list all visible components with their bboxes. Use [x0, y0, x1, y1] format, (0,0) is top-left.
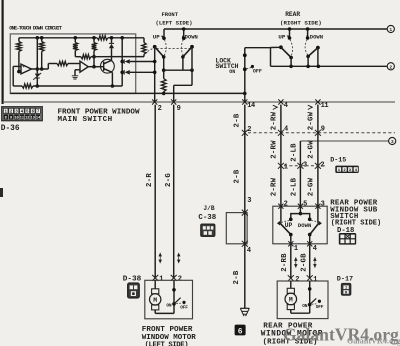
connector pin 1 rear motor: [307, 275, 318, 284]
svg-text:2-GW: 2-GW: [307, 140, 315, 159]
label 2-GW upper: [307, 111, 315, 130]
svg-text:D-38: D-38: [123, 275, 142, 283]
svg-text:2-RW: 2-RW: [270, 177, 278, 196]
resistor R8 (horizontal mid): [75, 55, 94, 59]
connector pin 1 front motor: [152, 275, 163, 284]
svg-text:UP: UP: [278, 33, 285, 40]
label DOWN rear: [310, 33, 323, 40]
wire sub out right: [309, 235, 311, 244]
wire sub contact bridge: [291, 214, 310, 220]
wire 2-B lower: [244, 244, 246, 308]
dashed link front pivots: [157, 48, 191, 50]
wire harness line: [3, 101, 395, 103]
ground ref 6 box: [235, 325, 246, 337]
connector D-18 icon: [339, 233, 356, 245]
wire R5 to U2: [68, 63, 80, 65]
terminal line to circle 3: [300, 140, 388, 142]
svg-text:2-R: 2-R: [146, 173, 154, 187]
wire 2-R: [154, 105, 156, 278]
wire lock vertical: [244, 48, 246, 102]
svg-text:9: 9: [177, 105, 181, 113]
svg-text:FRONT: FRONT: [162, 11, 179, 18]
svg-text:UP: UP: [285, 222, 293, 229]
one-touch down circuit box: [10, 34, 135, 94]
resistor R1: [17, 38, 22, 72]
svg-text:MAIN SWITCH: MAIN SWITCH: [58, 116, 113, 124]
sub pivot arrows: [277, 221, 322, 226]
dashed arc front UP: [164, 40, 166, 56]
label 2-B upper: [233, 113, 241, 127]
label DOWN front: [185, 33, 198, 40]
motor switch front arm: [174, 298, 181, 304]
svg-text:4: 4: [284, 125, 288, 133]
dashed arc front DOWN: [181, 40, 183, 56]
ground ZZ symbol: [72, 70, 78, 79]
dashed harness line 1: [248, 132, 395, 134]
motor switch rear OFF: [316, 300, 324, 311]
connector D-36 pin grid: [2, 107, 42, 121]
pivot dots front: [153, 45, 194, 49]
wire sub out left: [290, 235, 292, 244]
wire switch feed rear: [308, 281, 312, 305]
connector pin 2 rear motor: [288, 275, 300, 284]
switch arm rear-left: [281, 47, 293, 66]
motor switch front ON: [166, 302, 175, 308]
switch arm front-right: [181, 47, 192, 59]
wire 2-GW: [317, 105, 319, 207]
svg-text:UP: UP: [153, 33, 160, 40]
label 2-R: [146, 173, 154, 187]
connector pin 2 front motor: [171, 275, 182, 284]
label D-18: [337, 227, 354, 235]
svg-text:D-15: D-15: [330, 157, 346, 165]
wire ground bus: [10, 92, 246, 96]
wire DOWN contact drop: [183, 29, 185, 38]
svg-text:DOWN: DOWN: [298, 222, 311, 229]
svg-text:3: 3: [321, 201, 325, 209]
motor switch rear dashes: [312, 303, 317, 306]
wire diode-pair vertical: [120, 38, 124, 86]
svg-text:GalantVR4.org: GalantVR4.org: [347, 337, 400, 346]
terminal circle 3: [389, 137, 396, 145]
label D-38: [123, 275, 142, 283]
connector X 2-GW dashed2: [315, 162, 325, 170]
svg-text:2: 2: [158, 105, 162, 113]
wire 2-B upper: [244, 105, 246, 213]
svg-text:J/B: J/B: [203, 205, 214, 212]
coil L1: [142, 38, 146, 57]
svg-text:ONE-TOUCH DOWN CIRCUIT: ONE-TOUCH DOWN CIRCUIT: [9, 25, 62, 31]
svg-text:OFF: OFF: [180, 305, 188, 311]
wire front left arm to resistor: [162, 57, 166, 72]
op-amp U1: [16, 64, 31, 74]
label 2-GW mid: [307, 140, 315, 159]
dashed mechanical link coil-switch: [148, 48, 154, 51]
wire rear UP drop: [289, 29, 291, 38]
wire motor lead rear: [290, 281, 292, 288]
label UP sub: [285, 222, 293, 229]
arrow rear down-contact: [306, 36, 308, 39]
motor switch rear ON: [302, 303, 311, 309]
wire rail 1: [164, 27, 387, 31]
label 2-G: [165, 173, 173, 187]
pivot dots rear: [279, 45, 320, 49]
wire UP contact drop: [163, 29, 165, 38]
junction block J/B C-38 box: [226, 213, 247, 244]
wire 2-RW: [280, 105, 282, 207]
svg-text:1: 1: [294, 245, 298, 253]
label 2-RB: [281, 253, 289, 272]
connector X J/B top: [242, 210, 248, 216]
label 2-GW lower: [307, 177, 315, 196]
label D-15: [330, 157, 346, 165]
motor M1: [150, 289, 161, 310]
branch arrow 11: [308, 105, 313, 109]
terminal circle 1: [387, 25, 394, 33]
rear motor box: [277, 281, 328, 319]
svg-text:DOWN: DOWN: [310, 33, 323, 40]
svg-text:3: 3: [247, 197, 251, 205]
svg-text:2-GW: 2-GW: [307, 177, 315, 196]
svg-text:2-LB: 2-LB: [290, 143, 298, 162]
zener diode D2 with cross: [33, 73, 41, 88]
label DOWN sub: [298, 222, 311, 229]
svg-text:2-G: 2-G: [165, 173, 173, 187]
label D-17: [337, 276, 353, 284]
resistor R4: [92, 38, 97, 69]
wire top rail: [19, 37, 144, 39]
motor M2: [285, 288, 297, 309]
wire front common bus: [164, 68, 194, 72]
svg-text:D-17: D-17: [337, 276, 353, 284]
dashed harness line 2: [284, 165, 326, 167]
wire U1 output: [31, 64, 57, 70]
wire R1 to op-amp input: [17, 70, 21, 74]
wire front right pivot drop: [191, 47, 193, 86]
arrow down-contact front: [182, 36, 184, 39]
rear sub switch box: [273, 206, 327, 244]
svg-text:11: 11: [20, 117, 24, 121]
svg-text:2-LB: 2-LB: [290, 177, 298, 196]
svg-text:12: 12: [25, 117, 29, 121]
connector pin 4 rear: [278, 99, 288, 109]
wire bottom rail: [13, 85, 122, 87]
label UP rear: [278, 33, 285, 40]
svg-text:9: 9: [10, 117, 12, 121]
switch arm front-left: [155, 47, 166, 59]
wire motor bottom loop front: [155, 304, 174, 314]
connector pin 1 sub out: [288, 241, 298, 253]
wire sub pivot-right feed: [317, 206, 319, 223]
svg-text:M: M: [153, 297, 157, 304]
resistor R9: [161, 70, 166, 95]
motor switch rear arm: [310, 298, 317, 304]
connector pin 3 sub: [315, 201, 325, 209]
wire U1 feedback left: [13, 66, 16, 86]
wire front pivot-left vertical: [153, 47, 157, 102]
wire lock top route: [245, 48, 271, 67]
motor switch front OFF: [180, 301, 188, 311]
wire coil feed: [94, 56, 144, 58]
label 2-B lower: [233, 270, 241, 284]
svg-text:6: 6: [238, 327, 243, 336]
label D-36: [1, 125, 20, 133]
label 2-LB mid: [290, 143, 298, 162]
label FRONT: [162, 11, 179, 18]
dashed arc rear DOWN: [305, 39, 307, 55]
label REAR POWER WINDOW SUB SWITCH (RIGHT SIDE): [330, 199, 381, 227]
switch arm rear-right: [306, 48, 318, 67]
wire sub pivot-left feed: [280, 206, 282, 223]
svg-text:2-B: 2-B: [233, 169, 241, 183]
connector pin 3 J/B: [247, 197, 251, 205]
svg-text:2-RB: 2-RB: [281, 253, 289, 272]
connector X 2-LB dashed2: [297, 162, 307, 170]
label J/B C-38: [198, 205, 216, 222]
svg-text:10: 10: [14, 117, 18, 121]
lock ON contact: [229, 67, 246, 75]
wire 2-G: [173, 105, 175, 278]
diode D1 (collector clamp): [109, 38, 114, 61]
wire 2-GB: [309, 244, 311, 278]
label (RIGHT SIDE): [280, 20, 322, 27]
svg-text:ON: ON: [229, 69, 235, 75]
svg-text:2-B: 2-B: [233, 113, 241, 127]
label UP front: [153, 33, 160, 40]
svg-text:2: 2: [178, 276, 182, 284]
page border left edge: [0, 0, 3, 197]
wire zener branch: [36, 38, 40, 74]
connector pin 2 sub: [278, 201, 288, 209]
connector D-17 icon: [342, 284, 351, 296]
connector D-38 icon: [128, 283, 139, 298]
resistor R2: [39, 38, 44, 71]
resistor R5: [57, 61, 68, 65]
connector X 2-RW dashed1: [278, 125, 288, 135]
label 2-RW mid: [270, 140, 278, 159]
op-amp U2: [75, 61, 88, 72]
svg-text:OFF: OFF: [316, 304, 324, 310]
label ONE-TOUCH DOWN CIRCUIT: [9, 25, 62, 31]
svg-text:(RIGHT SIDE): (RIGHT SIDE): [280, 20, 322, 27]
switch arm sub-right: [308, 223, 319, 236]
svg-text:9: 9: [321, 125, 325, 133]
svg-text:(LEFT SIDE): (LEFT SIDE): [145, 341, 189, 346]
svg-text:OFF: OFF: [253, 68, 262, 74]
label FRONT POWER WINDOW MOTOR (LEFT SIDE): [142, 326, 197, 346]
resistor R7 (series in top rail): [97, 36, 108, 40]
label FRONT POWER WINDOW MAIN SWITCH: [58, 108, 140, 123]
arrow up-contact front: [161, 36, 163, 39]
sub contact dots: [289, 218, 312, 222]
wire 2-RB: [290, 244, 292, 278]
wire rear pivot-right drop: [317, 48, 319, 67]
svg-text:4: 4: [284, 102, 288, 110]
label 2-RW upper: [270, 111, 278, 130]
svg-text:(LEFT SIDE): (LEFT SIDE): [156, 19, 193, 26]
arrow rear up-contact: [287, 36, 289, 39]
svg-text:1: 1: [313, 276, 317, 284]
motor switch front dashes: [176, 302, 181, 304]
front motor box: [145, 280, 193, 319]
wire 2-LB: [299, 141, 301, 206]
svg-text:13: 13: [31, 117, 35, 121]
svg-text:2-RW: 2-RW: [270, 111, 278, 130]
connector pin 11 rear: [315, 99, 328, 109]
diode D4: [122, 70, 155, 75]
svg-text:1: 1: [159, 276, 163, 284]
wire front right arm drop: [182, 57, 184, 70]
connector X 2-RW dashed2: [278, 163, 288, 172]
svg-text:2-GW: 2-GW: [307, 111, 315, 130]
svg-text:4: 4: [247, 247, 251, 255]
contact dots rear: [288, 36, 310, 40]
connector pin 14: [242, 99, 255, 109]
wire rail 2: [271, 65, 388, 69]
dashed arc rear UP: [290, 39, 293, 55]
svg-text:2-RW: 2-RW: [270, 140, 278, 159]
svg-text:REAR: REAR: [285, 11, 300, 18]
terminal circle 2: [387, 63, 394, 71]
svg-text:2-GB: 2-GB: [301, 253, 309, 272]
svg-text:M: M: [289, 297, 293, 304]
svg-text:4: 4: [313, 245, 317, 253]
wire emitter to bottom rail: [111, 72, 115, 87]
label 2-GB: [301, 253, 309, 272]
connector X 2-GW dashed1: [315, 125, 325, 135]
diode D3: [122, 59, 155, 64]
label LOCK SWITCH: [216, 57, 239, 70]
wire motor bottom loop rear: [291, 305, 310, 314]
svg-text:FRONT POWER: FRONT POWER: [142, 326, 193, 334]
resistor R3: [73, 38, 78, 57]
svg-text:8: 8: [5, 117, 7, 121]
svg-text:1: 1: [284, 163, 288, 171]
connector X 2-B dashed1: [242, 126, 252, 136]
harness arrows rear: [294, 257, 317, 267]
svg-text:2-B: 2-B: [233, 270, 241, 284]
svg-text:ON: ON: [302, 303, 308, 309]
wire pin9 route: [174, 85, 192, 102]
label 2-LB lower: [290, 177, 298, 196]
connector pin 5 sub: [298, 201, 308, 209]
label REAR POWER WINDOW MOTOR (RIGHT SIDE): [261, 323, 323, 346]
wire sub center feed: [299, 206, 303, 215]
transistor Q1: [101, 59, 115, 73]
wire motor lead front: [154, 280, 156, 289]
branch arrow 4: [273, 105, 278, 109]
svg-text:14: 14: [247, 102, 255, 110]
wire rear DOWN drop: [307, 29, 309, 38]
wire rear pivot-left feed: [271, 46, 281, 48]
svg-text:DOWN: DOWN: [185, 33, 198, 40]
svg-text:3: 3: [391, 139, 394, 145]
label 2-RW lower: [270, 177, 278, 196]
label (LEFT SIDE): [156, 19, 193, 26]
node rail junctions: [36, 36, 124, 40]
connector D-15 icon: [335, 166, 359, 174]
watermark GalantVR4.org: [283, 325, 400, 346]
svg-text:2: 2: [295, 276, 299, 284]
svg-text:5: 5: [303, 201, 307, 209]
contact dots front: [162, 37, 185, 41]
ground symbol: [240, 308, 249, 316]
connector pin 9 front: [171, 99, 181, 113]
resistor R6 (bottom rail): [22, 84, 33, 88]
wire switch feed front: [172, 280, 176, 304]
svg-text:ON: ON: [166, 302, 172, 308]
connector X J/B bottom: [242, 241, 251, 255]
lock OFF contact: [251, 65, 262, 75]
connector pin 2 front: [152, 99, 162, 113]
svg-text:11: 11: [321, 102, 329, 110]
lock pivot dot: [243, 53, 247, 57]
wire U2 output to base: [88, 66, 104, 68]
svg-text:D-36: D-36: [1, 125, 20, 133]
svg-text:2: 2: [389, 65, 392, 71]
connector pin 4 sub out: [307, 241, 317, 253]
label 2-B mid: [233, 169, 241, 183]
dashed link lock: [247, 67, 252, 69]
label REAR: [285, 11, 300, 18]
dashed arcs sub: [282, 221, 319, 223]
connector C-38 icon: [201, 224, 215, 236]
switch arm sub-left: [280, 223, 293, 236]
harness arrows front: [158, 253, 180, 263]
wire 2-B through J/B: [244, 213, 246, 244]
svg-text:2: 2: [284, 201, 288, 209]
svg-text:1: 1: [389, 27, 392, 33]
svg-text:C-38: C-38: [198, 214, 216, 222]
svg-text:1: 1: [345, 287, 347, 291]
